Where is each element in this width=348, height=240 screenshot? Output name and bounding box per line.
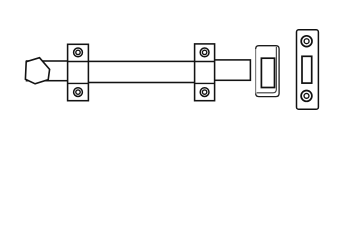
bracket 2 lower divider [195, 82, 215, 84]
guide bracket 1 [68, 44, 89, 100]
strike plate bottom screw [301, 91, 312, 102]
strike plate slot [302, 56, 312, 83]
keeper outline dark [256, 46, 279, 97]
bracket 2 bottom screw [200, 88, 209, 97]
strike plate top screw [301, 36, 312, 47]
bracket 1 bottom screw [74, 88, 83, 97]
rod left segment [27, 61, 79, 81]
bracket 1 lower divider [68, 82, 89, 84]
keeper left edge light [255, 49, 257, 93]
strike plate [297, 30, 319, 110]
bracket 1 upper divider [68, 61, 89, 63]
bracket 1 top screw [74, 48, 83, 57]
keeper body fill [256, 46, 279, 97]
bracket 2 top screw [200, 48, 209, 57]
keeper slot [261, 58, 274, 87]
guide bracket 2 [195, 44, 215, 101]
bracket 2 upper divider [195, 61, 215, 63]
rod tip segment [204, 60, 250, 80]
rod middle segment [78, 61, 204, 82]
keeper inner band [257, 47, 277, 93]
hexagon knob [25, 58, 49, 84]
